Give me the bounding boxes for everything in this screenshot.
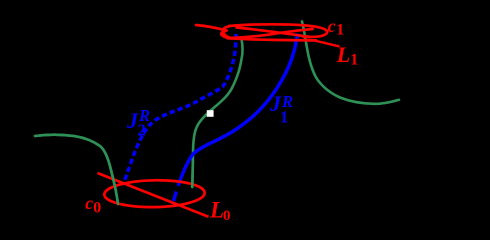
svg-text:L: L xyxy=(336,42,350,67)
svg-text:2: 2 xyxy=(138,121,146,140)
svg-text:L: L xyxy=(209,198,224,223)
svg-text:0: 0 xyxy=(223,208,231,224)
svg-text:1: 1 xyxy=(336,21,344,38)
svg-text:1: 1 xyxy=(280,107,288,126)
svg-text:c: c xyxy=(85,193,93,213)
svg-text:0: 0 xyxy=(93,200,101,217)
svg-text:c: c xyxy=(328,16,336,36)
svg-text:1: 1 xyxy=(350,51,358,68)
